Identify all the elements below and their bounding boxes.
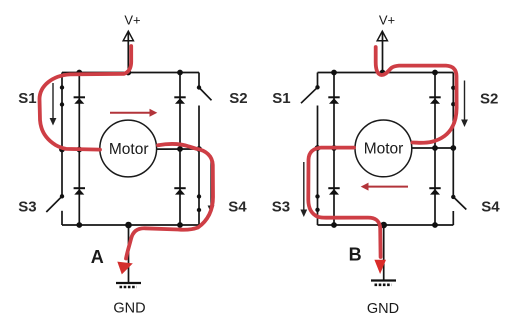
wire: B bottom rail	[318, 224, 454, 226]
switch S3 (A, open): lower stub	[61, 211, 63, 225]
wire: B GND lead	[383, 225, 385, 280]
switch S4 (B, open): lower stub	[452, 211, 454, 225]
switch S1 (B, open): upper stub	[317, 73, 319, 88]
wire: B top rail	[318, 72, 454, 74]
V+ power symbol (B)	[377, 31, 387, 41]
red current path (A) from V+ through S1 to motor	[40, 46, 132, 150]
switch S2 (A, open): upper stub	[198, 73, 200, 88]
svg-text:S4: S4	[481, 198, 500, 215]
switch S4 (B, open): upper stub	[452, 148, 454, 197]
red current path (B) from motor through S3 to GND	[308, 148, 380, 257]
diode D8 branch wire (B lower-right)	[434, 148, 436, 225]
switch pivot dot S2 (A)	[197, 85, 201, 89]
svg-text:GND: GND	[113, 301, 145, 317]
diode D5 branch wire (B upper-left)	[333, 73, 335, 149]
diode D7 (B lower-left)	[328, 188, 339, 194]
diode D5 (B upper-left)	[328, 97, 339, 104]
diode D4 (A lower-right)	[174, 188, 185, 194]
switch pivot dot S1 (B)	[315, 85, 319, 89]
switch S1 (B, open): lever	[301, 87, 318, 103]
switch contact dots S2 (B)	[451, 86, 455, 90]
diode D6 branch wire (B upper-right)	[434, 73, 436, 149]
current direction arrow beside S3 (B)	[300, 162, 307, 217]
current direction arrow beside S4 (A)	[208, 160, 215, 213]
diode D2 branch wire (A upper-right)	[179, 73, 181, 150]
svg-text:Motor: Motor	[109, 141, 149, 158]
svg-text:S1: S1	[272, 90, 290, 107]
wire: A V+ lead	[127, 32, 129, 73]
switch pivot dot S3 (A)	[60, 194, 64, 198]
svg-text:S3: S3	[272, 198, 290, 215]
svg-text:S1: S1	[18, 90, 36, 107]
switch pivot dot S4 (B)	[451, 195, 455, 199]
diode D7 branch wire (B lower-left)	[333, 148, 335, 225]
diode D1 branch wire (A upper-left)	[78, 73, 80, 150]
wire: A top rail	[62, 72, 199, 74]
switch contact dots S1 (A)	[60, 85, 64, 89]
V+ power symbol (A)	[123, 31, 133, 41]
svg-text:Motor: Motor	[364, 140, 404, 157]
svg-text:V+: V+	[379, 13, 395, 28]
red arrow above motor (A), current direction through motor	[110, 109, 157, 117]
diode D2 (A upper-right)	[174, 97, 185, 104]
ground symbol (B)	[371, 281, 396, 285]
wire: A motor leads (mid horizontal)	[62, 148, 199, 151]
svg-text:GND: GND	[367, 301, 399, 317]
wire: A left leg upper part of S3 branch	[61, 150, 63, 197]
svg-text:S2: S2	[480, 90, 498, 107]
wire: B motor leads (mid horizontal)	[318, 147, 454, 149]
wire: B V+ lead	[382, 32, 384, 73]
wire: A bottom rail	[62, 224, 199, 226]
svg-text:A: A	[91, 247, 104, 267]
red arrow below motor (B), current direction through motor	[361, 183, 408, 191]
diode D3 (A lower-left)	[74, 188, 85, 194]
diode D1 (A upper-left)	[74, 97, 85, 104]
svg-text:S2: S2	[229, 90, 247, 107]
red arrowhead into GND (B)	[374, 260, 386, 274]
wire: A left leg with closed switch S1	[61, 73, 63, 150]
current direction arrow beside S1 (A)	[50, 83, 57, 126]
switch S2 (A, open): lever	[199, 88, 212, 101]
switch S1 (B, open): lower stub	[317, 106, 319, 149]
diode D6 (B upper-right)	[429, 97, 440, 104]
switch contact dots S3 (B)	[315, 194, 319, 198]
svg-text:S4: S4	[228, 198, 247, 215]
switch S4 (A, closed) branch wire	[198, 149, 200, 225]
diode D8 (B lower-right)	[429, 188, 440, 194]
switch S4 (B, open): lever	[453, 197, 466, 210]
motor M (A)	[100, 120, 157, 177]
junction dots (A)	[59, 70, 202, 229]
red current path (A) from motor through S4 to GND	[126, 144, 213, 258]
switch S2 (B, closed) branch wire	[452, 73, 454, 149]
svg-text:V+: V+	[124, 13, 140, 28]
svg-text:B: B	[349, 245, 362, 265]
ground symbol (A)	[116, 283, 141, 287]
wire: A GND lead	[128, 225, 130, 282]
diode D3 branch wire (A lower-left)	[78, 150, 80, 226]
switch S2 (A, open): lower stub	[198, 106, 200, 150]
red current path (B) from V+ through S2 to motor	[376, 47, 457, 143]
red arrowhead into GND (A)	[117, 262, 133, 275]
svg-text:S3: S3	[18, 198, 36, 215]
motor M (B)	[355, 120, 412, 177]
switch contact dots S4 (A)	[197, 194, 201, 198]
current direction arrow beside S2 (B)	[461, 81, 468, 128]
junction dots (B)	[315, 70, 457, 229]
diode D4 branch wire (A lower-right)	[179, 149, 181, 225]
switch S3 (A, open): lever	[46, 196, 62, 212]
switch S3 (B, closed) branch wire	[317, 148, 319, 225]
